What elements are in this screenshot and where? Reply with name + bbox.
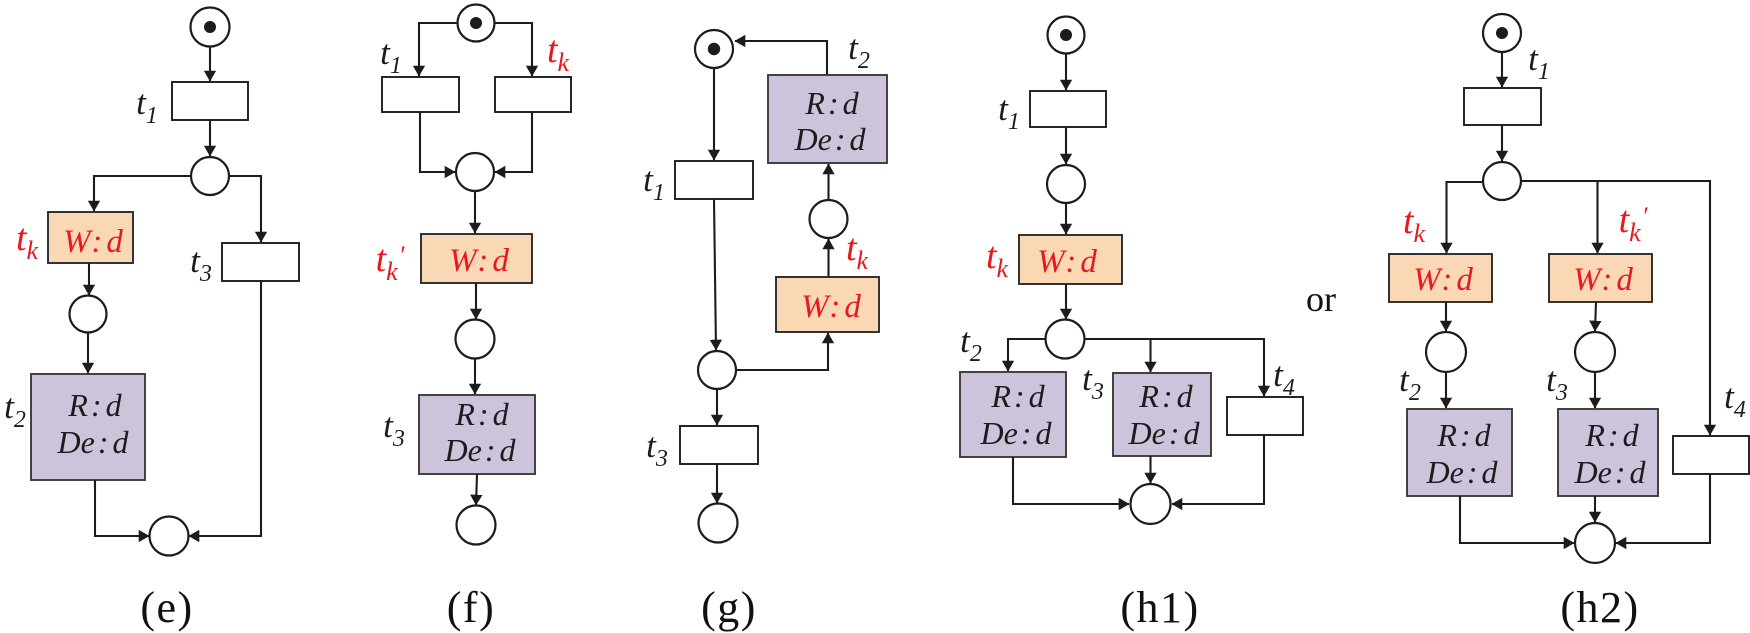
place P3h2 xyxy=(1575,332,1615,372)
svg-text:De:d: De:d xyxy=(1426,454,1499,490)
svg-text:t3: t3 xyxy=(646,426,668,472)
svg-text:t3: t3 xyxy=(1082,359,1104,405)
svg-text:W:d: W:d xyxy=(1413,262,1473,298)
svg-text:R:d: R:d xyxy=(67,387,122,423)
svg-text:W:d: W:d xyxy=(801,289,861,325)
wire tk(g) to P1g xyxy=(827,239,829,277)
svg-text:t4: t4 xyxy=(1273,355,1295,401)
svg-text:t3: t3 xyxy=(383,406,405,452)
wire P1h2 to tk' (h2) xyxy=(1521,181,1598,253)
place P2h2 xyxy=(1426,332,1466,372)
transition t3 (f) R:d De:d box xyxy=(419,395,535,474)
wire P2f to t3 (f) xyxy=(474,359,476,394)
transition t1 (h2) xyxy=(1464,88,1541,125)
svg-text:tk′: tk′ xyxy=(1619,199,1648,247)
svg-text:De:d: De:d xyxy=(444,432,517,468)
svg-text:t1: t1 xyxy=(998,89,1020,135)
svg-text:or: or xyxy=(1306,279,1336,319)
wire P0h2 to t1 (h2) xyxy=(1501,52,1503,87)
svg-text:tk: tk xyxy=(846,227,869,275)
svg-text:W:d: W:d xyxy=(1573,262,1633,298)
wire P2g to t3 (g) xyxy=(716,389,718,425)
place P3e xyxy=(150,517,189,556)
wire t3(e) to P3e xyxy=(189,281,261,536)
wire t2(e) to P3e xyxy=(95,480,149,536)
svg-text:t2: t2 xyxy=(1399,360,1421,406)
wire t2(h2) to P4h2 xyxy=(1460,496,1574,543)
transition t1 (h1) xyxy=(1030,91,1106,127)
place P4h2 xyxy=(1575,523,1615,563)
place P0g (token) xyxy=(695,30,733,68)
svg-text:t1: t1 xyxy=(1528,39,1550,85)
transition tk (h2) W:d box xyxy=(1389,254,1492,302)
svg-text:R:d: R:d xyxy=(990,378,1045,414)
wire P2h1 to t2 (h1) xyxy=(1008,339,1045,371)
svg-text:tk: tk xyxy=(16,217,39,265)
wire P2e to t2 (e) xyxy=(87,333,89,373)
place P0h1 (token) xyxy=(1048,17,1085,54)
wire tk(h2) to P2h2 xyxy=(1445,302,1447,331)
svg-text:tk′: tk′ xyxy=(376,238,405,286)
svg-text:(e): (e) xyxy=(140,583,193,632)
transition t2 (h2) R:d De:d box xyxy=(1407,409,1512,496)
transition t4 (h2) xyxy=(1673,436,1749,474)
transition t3 (h2) R:d De:d box xyxy=(1558,409,1658,496)
svg-text:(g): (g) xyxy=(701,583,757,632)
wire P0f to t1 (f) xyxy=(419,23,457,76)
wire P1e to t3 (e) xyxy=(229,176,261,242)
svg-text:De:d: De:d xyxy=(1128,415,1201,451)
transition t1 (e) xyxy=(172,82,248,120)
svg-text:(f): (f) xyxy=(447,583,495,632)
place P0h2 (token) xyxy=(1483,14,1521,52)
transition tk (e) W:d box xyxy=(48,212,133,263)
place P1f xyxy=(456,153,494,191)
svg-text:De:d: De:d xyxy=(980,415,1053,451)
place P0e (token) xyxy=(191,8,230,47)
wire tk(f) to P1f xyxy=(495,112,532,172)
transition tk' (h2) W:d box xyxy=(1549,254,1652,302)
wire P2h1 to t3 (h1) xyxy=(1085,339,1151,372)
svg-text:De:d: De:d xyxy=(794,121,867,157)
place P1e xyxy=(191,157,229,195)
svg-text:tk: tk xyxy=(547,29,570,77)
wire tk'(h2) to P3h2 xyxy=(1595,302,1596,331)
svg-text:t1: t1 xyxy=(380,33,402,79)
place P2e xyxy=(70,296,107,333)
wire t3(g) to P3g xyxy=(716,464,718,503)
wire P0e to t1e xyxy=(209,47,211,81)
svg-text:W:d: W:d xyxy=(63,224,123,260)
wire t1e to P1e xyxy=(209,120,211,156)
place P1h1 xyxy=(1047,165,1085,203)
wire P1h2 to t4 (h2) xyxy=(1598,181,1711,435)
wire t1(f) to P1f xyxy=(420,112,455,172)
wire P2h2 to t2 (h2) xyxy=(1445,372,1447,408)
wire t2(g) to P0g feedback xyxy=(735,41,827,75)
transition t4 (h1) xyxy=(1227,397,1303,435)
transition t3 (g) xyxy=(680,426,758,464)
svg-text:R:d: R:d xyxy=(454,396,509,432)
wire tk(h1) to P2h1 xyxy=(1065,284,1067,319)
place P2f xyxy=(456,320,495,359)
wire P0g to t1 (g) xyxy=(713,69,715,161)
place P0f (token) xyxy=(458,5,495,42)
wire t1(h1) to P1h1 xyxy=(1065,127,1067,164)
svg-text:t1: t1 xyxy=(136,83,158,129)
transition t2 (h1) R:d De:d box xyxy=(960,372,1066,457)
wire tk'(f) to P2f xyxy=(475,283,477,319)
place P3g xyxy=(699,504,738,543)
svg-text:tk: tk xyxy=(986,235,1009,283)
place P3h1 xyxy=(1131,484,1171,524)
svg-text:t3: t3 xyxy=(1546,360,1568,406)
svg-text:t2: t2 xyxy=(4,387,26,433)
transition t2 (g) R:d De:d box xyxy=(768,75,887,163)
transition t2 (e) R:d De:d box xyxy=(31,374,145,480)
wire t1(h2) to P1h2 xyxy=(1501,125,1503,161)
wire P0f to tk (f) xyxy=(495,23,532,76)
transition tk (g) W:d box xyxy=(776,277,879,332)
transition t1 (g) xyxy=(675,161,753,199)
svg-text:De:d: De:d xyxy=(57,424,130,460)
wire P2h1 to t4 (h1) xyxy=(1151,339,1265,396)
wire t3(f) to P3f xyxy=(476,474,477,505)
svg-text:R:d: R:d xyxy=(1436,417,1491,453)
svg-text:W:d: W:d xyxy=(449,243,509,279)
svg-text:tk: tk xyxy=(1403,200,1426,248)
wire P2g to tk (g) xyxy=(736,333,828,370)
wire P1f to tk' (f) xyxy=(474,191,476,233)
place P3f xyxy=(457,506,496,545)
wire t1(g) to P2g xyxy=(714,199,716,350)
wire P1g to t2 (g) xyxy=(827,164,829,200)
svg-text:(h1): (h1) xyxy=(1120,583,1199,632)
wire t3(h2) to P4h2 xyxy=(1594,496,1596,522)
svg-text:t1: t1 xyxy=(643,160,665,206)
transition t3 (e) xyxy=(222,243,299,281)
wire P1h1 to tk (h1) xyxy=(1065,203,1067,234)
svg-text:De:d: De:d xyxy=(1574,454,1647,490)
svg-text:W:d: W:d xyxy=(1037,244,1097,280)
wire P0h1 to t1 (h1) xyxy=(1065,54,1067,90)
svg-text:t3: t3 xyxy=(190,241,212,287)
svg-text:t2: t2 xyxy=(960,321,982,367)
wire t4(h1) to P3h1 xyxy=(1172,435,1264,504)
wire P3h2 to t3 (h2) xyxy=(1594,372,1596,408)
svg-text:R:d: R:d xyxy=(1584,417,1639,453)
wire t2(h1) to P3h1 xyxy=(1013,457,1129,504)
svg-text:t2: t2 xyxy=(848,28,870,74)
transition t3 (h1) R:d De:d box xyxy=(1113,373,1211,456)
wire P1e to tk (e) xyxy=(94,176,191,211)
svg-text:(h2): (h2) xyxy=(1560,583,1639,632)
place P2h1 xyxy=(1046,320,1085,359)
place P1g xyxy=(810,200,848,238)
place P2g xyxy=(698,351,736,389)
transition t1 (f) xyxy=(382,77,459,112)
transition tk' (f) W:d box xyxy=(421,234,532,283)
place P1h2 xyxy=(1483,162,1521,200)
wire t4(h2) to P4h2 xyxy=(1616,474,1710,543)
wire t3(h1) to P3h1 xyxy=(1149,456,1151,483)
transition tk (h1) W:d box xyxy=(1019,235,1122,284)
wire P1h2 to tk (h2) xyxy=(1447,182,1484,253)
transition tk (f) xyxy=(495,77,571,112)
svg-text:R:d: R:d xyxy=(1138,378,1193,414)
svg-text:t4: t4 xyxy=(1724,377,1746,423)
svg-text:R:d: R:d xyxy=(804,85,859,121)
wire tk(e) to P2e xyxy=(88,263,90,295)
